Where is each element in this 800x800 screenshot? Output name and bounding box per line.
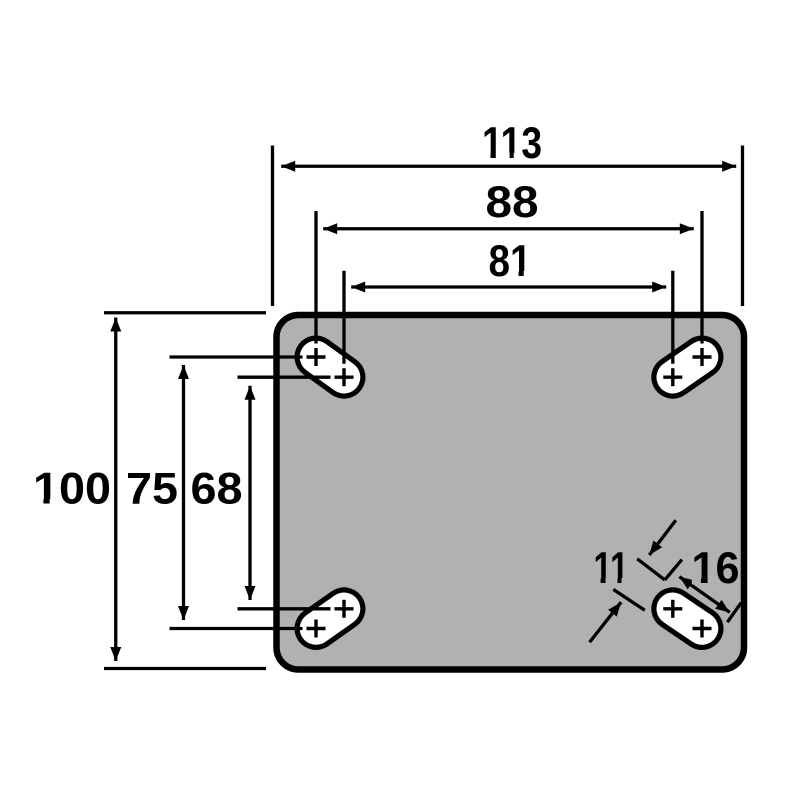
slot width extent line upper (11) (637, 559, 665, 580)
mask: label 113 between-1s feet (496, 153, 510, 159)
mask: label 81 one foot left (512, 271, 519, 277)
cross mark top-right outer (693, 348, 712, 366)
mask: label 100 one foot right (50, 499, 59, 505)
extension line 81 right (671, 271, 674, 364)
extension line 113 right (741, 146, 744, 307)
extension line 100 top (104, 311, 266, 314)
dimension line 88 (323, 227, 694, 230)
dimension line 100 (114, 318, 117, 662)
extension line 88 right (700, 211, 703, 344)
slot bottom-left (mounting hole) (316, 609, 344, 629)
cross mark top-left outer (307, 348, 326, 366)
slot bottom-right (mounting hole) (673, 609, 702, 629)
cross mark bottom-right outer (693, 620, 712, 638)
tick lower (16) (727, 603, 741, 623)
mask: label 11 second-1 foot right (622, 578, 630, 585)
svg-text:16: 16 (692, 544, 740, 593)
cross mark bottom-left outer (307, 620, 326, 638)
extension line 75 top (170, 355, 303, 358)
dimension line 75 (182, 365, 185, 620)
cross mark top-left inner (335, 368, 354, 386)
dimension line 113 (281, 165, 736, 168)
cross mark top-right inner (663, 368, 682, 386)
leader arrow upper (11) (649, 520, 676, 555)
extension line 81 left (342, 271, 345, 364)
plate: caster mounting plate body (277, 315, 745, 670)
dimension line 68 (248, 386, 251, 600)
dimension line 81 (351, 285, 666, 288)
mask: label 16 one foot right (708, 578, 715, 585)
mask: label 11 between feet (606, 578, 618, 585)
svg-text:68: 68 (191, 465, 243, 514)
leader arrow lower (11) (590, 602, 622, 642)
extension line 88 left (314, 211, 317, 344)
svg-text:11: 11 (594, 544, 629, 593)
extension line 75 bottom (170, 627, 303, 630)
extension line 68 bottom (238, 607, 331, 610)
svg-text:113: 113 (482, 119, 542, 168)
tick upper (16) (665, 560, 682, 580)
slot width extent line lower (11) (613, 589, 645, 610)
extension line 100 bottom (104, 667, 266, 670)
mask: label 113 first-1 foot left (483, 153, 491, 159)
svg-text:88: 88 (486, 178, 539, 227)
mask: label 100 one foot left (34, 499, 43, 505)
extension line 113 left (271, 146, 274, 307)
svg-text:81: 81 (489, 237, 532, 286)
mask: label 113 second-1 foot right (514, 153, 522, 159)
mask: label 81 one foot right (524, 271, 532, 277)
svg-text:100: 100 (33, 465, 111, 514)
mask: label 16 one foot left (692, 578, 701, 585)
mask: label 11 first-1 foot left (593, 578, 600, 585)
svg-text:75: 75 (126, 465, 178, 514)
slot top-right (mounting hole) (673, 357, 702, 377)
cross mark bottom-right inner (663, 600, 682, 618)
extension line 68 top (238, 376, 331, 379)
dimension line 16 (679, 577, 729, 613)
slot top-left (mounting hole) (316, 357, 344, 377)
cross mark bottom-left inner (335, 600, 354, 618)
